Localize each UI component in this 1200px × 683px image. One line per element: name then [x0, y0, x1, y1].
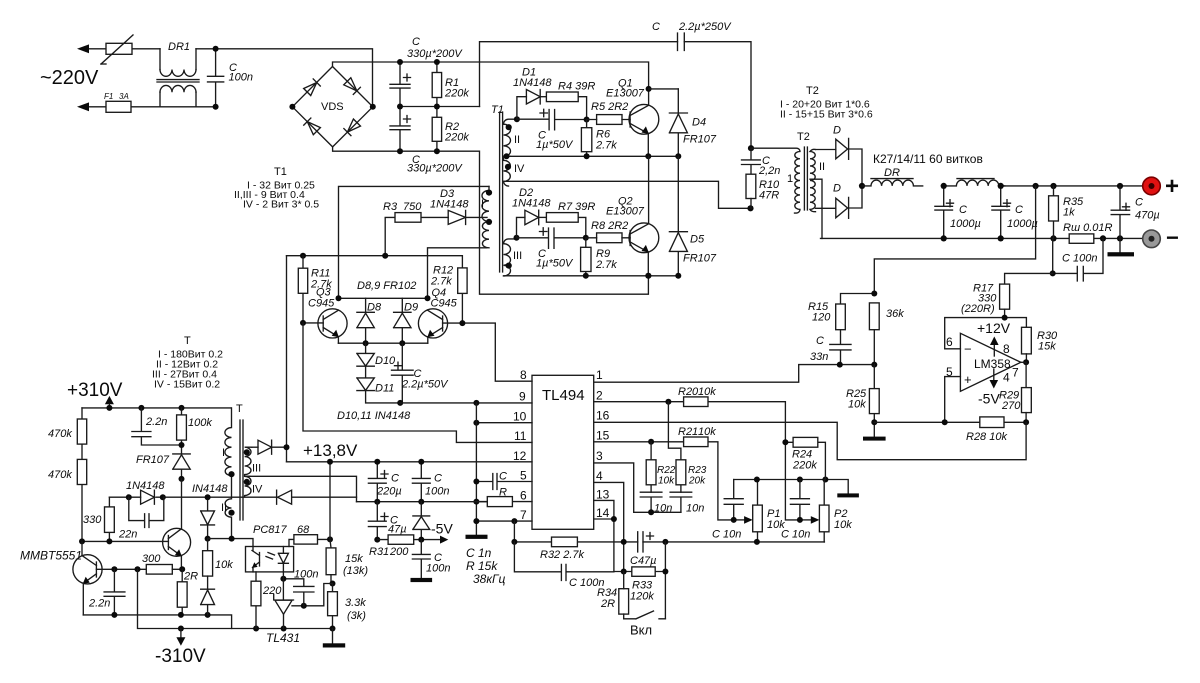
capacitor C 1u*50V (Q2): [517, 228, 586, 270]
wire feedback return to pin16: [594, 422, 1026, 459]
svg-text:PC817: PC817: [253, 524, 288, 536]
svg-text:II - 15+15 Вит 3*0.6: II - 15+15 Вит 3*0.6: [780, 109, 873, 121]
svg-text:300: 300: [142, 553, 161, 565]
inductor DR output choke: [862, 167, 923, 186]
transformer T2 table: [780, 85, 873, 121]
svg-text:D: D: [833, 125, 841, 137]
wire choke top to bridge: [196, 49, 373, 107]
svg-text:C: C: [1015, 204, 1023, 216]
switch Vkl: [624, 611, 666, 638]
capacitor C 100n aux: [412, 462, 449, 502]
svg-text:+: +: [1165, 173, 1179, 200]
transformer T2 secondary winding II: [810, 149, 825, 211]
resistor 36k: [869, 303, 904, 365]
transistor MMBT5551: [20, 541, 146, 615]
capacitor C 100n input: [208, 49, 253, 107]
transformer T2 core: [787, 131, 810, 210]
svg-text:R21: R21: [678, 426, 698, 438]
diode FR107 aux: [136, 454, 190, 479]
wire Q1 emitter rail: [510, 155, 678, 157]
svg-text:47R: 47R: [759, 190, 779, 202]
svg-text:C: C: [499, 471, 507, 483]
capacitor C 47u: [368, 502, 406, 540]
svg-text:1000µ: 1000µ: [950, 218, 981, 230]
resistor R24 220k: [785, 437, 825, 479]
svg-text:C: C: [412, 36, 420, 48]
svg-text:E13007: E13007: [606, 206, 645, 218]
node D2 anode junction: [514, 235, 520, 241]
transformer T1 winding I (left): [481, 186, 492, 247]
svg-text:3: 3: [596, 449, 603, 463]
wire AC top lead: [86, 48, 160, 50]
svg-text:4: 4: [1003, 371, 1010, 385]
wire minus output rail: [821, 237, 1143, 239]
wire T1 left bottom to Q4 collector column: [428, 248, 488, 298]
resistor R33 120k: [614, 542, 666, 619]
resistor 220: [251, 572, 282, 629]
diode D10 IN4148: [357, 343, 396, 367]
transformer T aux core: [236, 403, 243, 520]
svg-text:220µ: 220µ: [376, 486, 402, 498]
svg-text:D10: D10: [375, 355, 396, 367]
svg-text:16: 16: [596, 409, 610, 423]
svg-text:D5: D5: [690, 234, 705, 246]
resistor R9 2.7k: [581, 238, 618, 276]
pin labels right: [596, 368, 610, 520]
svg-text:-310V: -310V: [155, 646, 206, 667]
capacitor 22n: [118, 497, 164, 540]
svg-text:R3: R3: [383, 201, 398, 213]
capacitor C 1u*50V (Q1): [517, 109, 587, 151]
svg-text:750: 750: [403, 201, 422, 213]
wire pin8 to Q4 base line: [462, 323, 532, 381]
transformer T2 primary winding: [751, 148, 800, 213]
capacitor C 2.2u*250V: [652, 21, 732, 51]
transistor Q2 E13007: [606, 156, 659, 275]
resistor 300: [142, 553, 182, 574]
capacitor C 100n -5V: [412, 540, 450, 578]
transformer T aux winding IV: [244, 476, 263, 497]
fuse F1 3A: [104, 92, 131, 112]
svg-text:10k: 10k: [834, 519, 852, 531]
svg-text:LM358: LM358: [974, 357, 1011, 371]
svg-text:5: 5: [520, 469, 527, 483]
svg-text:470k: 470k: [48, 469, 72, 481]
svg-text:C: C: [816, 335, 824, 347]
svg-text:К27/14/11 60 витков: К27/14/11 60 витков: [873, 152, 983, 166]
resistor 2R: [177, 569, 198, 615]
svg-text:C: C: [434, 473, 442, 485]
svg-text:1µ*50V: 1µ*50V: [536, 258, 574, 270]
svg-text:10k: 10k: [698, 426, 716, 438]
op-amp LM358: [946, 320, 1021, 407]
svg-text:100k: 100k: [188, 417, 212, 429]
svg-text:1N4148: 1N4148: [126, 480, 165, 492]
svg-text:R 15k: R 15k: [466, 559, 498, 573]
wire pin1 feedback line: [594, 365, 875, 383]
svg-text:14: 14: [596, 506, 610, 520]
wire pin9 line: [400, 402, 532, 404]
svg-text:R32 2.7k: R32 2.7k: [540, 549, 585, 561]
diode D1 1N4148: [513, 67, 552, 120]
wire P divider top line: [734, 480, 849, 494]
node dots around C330 stack: [397, 59, 403, 65]
wire FR107 to start transistor: [181, 479, 183, 529]
optocoupler PC817: [246, 524, 294, 572]
wire lower rail A: [83, 615, 231, 629]
svg-text:270: 270: [1001, 400, 1021, 412]
svg-text:I: I: [222, 447, 225, 459]
wire emitter common line: [338, 342, 427, 344]
wire AC bottom lead: [86, 106, 216, 108]
svg-text:F1: F1: [104, 92, 113, 101]
svg-text:1µ*50V: 1µ*50V: [536, 139, 574, 151]
bridge node dots: [289, 104, 295, 110]
potentiometer P1 10k: [734, 480, 786, 542]
IC TL494 body: [532, 375, 594, 529]
svg-text:10k: 10k: [848, 399, 866, 411]
node -310V arrow: [155, 629, 206, 668]
wire pin7 ground stub: [476, 520, 532, 522]
resistor 470k lower: [48, 459, 87, 541]
svg-text:330µ*200V: 330µ*200V: [407, 48, 463, 60]
svg-text:+: +: [964, 372, 972, 387]
wire top rail 2.2u riser from midnode: [480, 42, 752, 149]
svg-text:2.2µ*50V: 2.2µ*50V: [401, 379, 449, 391]
svg-text:+13,8V: +13,8V: [303, 441, 358, 460]
wire D3 tap: [466, 216, 487, 218]
wire aux 0V rail: [357, 501, 488, 503]
svg-text:III: III: [513, 250, 522, 262]
svg-text:(220R): (220R): [961, 303, 995, 315]
node op-amp output: [1023, 359, 1029, 365]
wire +rail to Q1 collector riser: [333, 62, 649, 105]
wire inverting input line: [945, 318, 1027, 349]
resistor 15k (13k): [326, 548, 368, 584]
inductor DR1 common-mode choke: [157, 41, 199, 107]
resistor R4 39R: [546, 81, 595, 120]
terminal plus (red): [1143, 173, 1179, 200]
capacitor C 1000u second: [992, 186, 1038, 239]
svg-text:1: 1: [787, 173, 793, 185]
diode IN4148 opto column: [201, 497, 215, 538]
svg-text:C 100n: C 100n: [1062, 253, 1097, 265]
resistor R22 10k: [646, 442, 676, 492]
svg-text:2.2n: 2.2n: [145, 416, 167, 428]
svg-text:1N4148: 1N4148: [430, 199, 469, 211]
resistor R10 47R: [746, 174, 780, 208]
svg-text:C: C: [959, 204, 967, 216]
transformer T1 winding III: [504, 239, 523, 276]
svg-text:4: 4: [596, 469, 603, 483]
svg-text:7: 7: [1012, 366, 1019, 380]
diode -5V clamp: [413, 502, 430, 540]
ground bar TL431: [323, 629, 345, 648]
resistor R29 270: [999, 362, 1031, 422]
svg-text:D8,9 FR102: D8,9 FR102: [357, 280, 416, 292]
resistor 470k upper: [48, 408, 87, 460]
svg-text:1N4148: 1N4148: [512, 198, 551, 210]
svg-text:II: II: [819, 161, 825, 173]
svg-text:-5V: -5V: [431, 521, 453, 537]
capacitor 2.2n aux: [132, 408, 182, 445]
svg-text:220k: 220k: [444, 88, 469, 100]
resistor R28 10k: [874, 417, 1026, 443]
svg-text:R22: R22: [657, 465, 676, 476]
wire T2 center tap to ground rail: [810, 179, 822, 238]
svg-text:3A: 3A: [119, 92, 129, 101]
wire Q1 collector to D4: [649, 88, 679, 90]
ground bar -5V: [411, 578, 433, 582]
wire pin15 line: [594, 442, 734, 520]
resistor R31 200: [369, 535, 440, 558]
svg-text:-5V: -5V: [978, 391, 1000, 407]
svg-text:IV: IV: [514, 163, 525, 175]
svg-text:3.3k: 3.3k: [345, 597, 366, 609]
svg-text:2.7k: 2.7k: [595, 140, 617, 152]
svg-text:FR107: FR107: [136, 454, 170, 466]
resistor R34 2R: [597, 572, 629, 619]
svg-text:DR: DR: [884, 167, 900, 179]
svg-text:1: 1: [596, 368, 603, 382]
svg-text:D: D: [833, 183, 841, 195]
svg-text:+12V: +12V: [977, 320, 1011, 336]
svg-text:10k: 10k: [658, 476, 675, 487]
resistor R32 2.7k: [540, 537, 585, 561]
svg-text:C 1n: C 1n: [466, 546, 492, 560]
resistor R5 2R2: [587, 101, 631, 124]
svg-text:R4 39R: R4 39R: [558, 81, 595, 93]
svg-text:C945: C945: [431, 298, 458, 310]
svg-text:22n: 22n: [118, 529, 137, 541]
capacitor 10n (R23): [670, 492, 704, 514]
resistor R6 2.7k: [581, 120, 617, 157]
svg-text:R: R: [499, 487, 507, 499]
shunt regulator TL431: [266, 572, 300, 645]
node junction dots AC: [213, 46, 219, 52]
diode D bottom secondary: [816, 183, 863, 219]
svg-text:R23: R23: [688, 465, 707, 476]
ground bar TL494: [466, 535, 488, 539]
diode D8 FR102: [357, 298, 382, 343]
wire bottom center rail: [514, 521, 824, 542]
capacitor C 2.2u*50V: [392, 343, 450, 403]
resistor 3.3k (3k): [328, 584, 367, 629]
wire AC top arrow: [77, 44, 89, 53]
resistor R17 330 (220R): [961, 283, 1010, 318]
svg-text:11: 11: [514, 429, 527, 443]
resistor R7 39R: [546, 201, 595, 238]
ground bar P network: [837, 493, 859, 497]
svg-text:8: 8: [1003, 342, 1010, 356]
node D1 anode junction: [514, 116, 520, 122]
capacitor C 470u: [1111, 186, 1160, 238]
svg-text:1000µ: 1000µ: [1007, 218, 1038, 230]
svg-text:C47µ: C47µ: [630, 555, 657, 567]
svg-text:D11: D11: [375, 383, 394, 395]
bridge rectifier VDS: [292, 67, 372, 147]
potentiometer P2 10k: [800, 480, 852, 542]
svg-text:38кГц: 38кГц: [473, 572, 506, 586]
svg-text:2.7k: 2.7k: [430, 276, 452, 288]
svg-text:6: 6: [520, 489, 527, 503]
svg-text:T: T: [184, 335, 191, 347]
svg-text:R20: R20: [678, 386, 699, 398]
resistor R25 10k: [846, 365, 879, 423]
svg-text:2,2n: 2,2n: [758, 165, 780, 177]
transformer T aux table: [152, 335, 223, 391]
svg-text:D8: D8: [367, 302, 382, 314]
svg-text:T: T: [236, 403, 243, 415]
svg-text:FR107: FR107: [683, 253, 717, 265]
wire Q2 emitter rail: [510, 275, 678, 277]
svg-text:IN4148: IN4148: [192, 483, 228, 495]
node T2 primary top dot: [748, 145, 754, 151]
svg-text:15k: 15k: [1038, 341, 1056, 353]
node +310V arrow: [105, 396, 114, 404]
svg-text:C: C: [652, 21, 660, 33]
transistor start NPN: [163, 528, 191, 569]
svg-text:220: 220: [262, 585, 282, 597]
svg-text:470µ: 470µ: [1135, 210, 1160, 222]
svg-text:R5 2R2: R5 2R2: [591, 101, 628, 113]
svg-text:2R: 2R: [183, 571, 198, 583]
svg-text:2.2n: 2.2n: [88, 598, 110, 610]
terminal minus (gray): [1143, 225, 1179, 250]
diode D4 FR107: [669, 89, 716, 156]
transformer T1 labels table: [234, 166, 319, 211]
diode D3 1N4148: [430, 188, 469, 224]
capacitor C 220u: [368, 462, 401, 502]
wire plus sense column: [874, 186, 1035, 294]
svg-text:1k: 1k: [1063, 207, 1075, 219]
wire T1 winding I top feed: [339, 186, 490, 298]
resistor 68: [289, 524, 330, 547]
wire pin12 +13.8V rail: [287, 461, 533, 463]
resistor 10k opto: [203, 539, 234, 590]
wire winding IV feedback to T2 loop: [504, 181, 751, 208]
svg-text:C 10n: C 10n: [712, 529, 741, 541]
resistor R21 10k: [678, 426, 716, 447]
wire aux -5V winding line: [109, 496, 356, 498]
wire pin2 line: [594, 402, 800, 520]
wire pin3 jog: [594, 463, 681, 512]
svg-text:TL431: TL431: [266, 631, 300, 645]
svg-text:200: 200: [389, 546, 409, 558]
svg-text:R8 2R2: R8 2R2: [591, 220, 628, 232]
diode D5 FR107: [669, 156, 716, 275]
svg-text:10n: 10n: [686, 503, 704, 515]
svg-text:R31: R31: [369, 546, 389, 558]
resistor Rsh 0.01R shunt: [1063, 222, 1113, 243]
svg-text:10k: 10k: [698, 386, 716, 398]
diode D top secondary: [816, 125, 863, 186]
wire ground bus TL494: [475, 403, 477, 535]
resistor R35 1k: [1049, 186, 1084, 238]
svg-text:47µ: 47µ: [388, 524, 407, 536]
svg-text:III: III: [252, 463, 261, 475]
svg-text:(13k): (13k): [343, 565, 368, 577]
resistor R30 15k: [1022, 327, 1059, 362]
resistor R1 220k: [432, 62, 469, 107]
svg-text:100n: 100n: [294, 569, 318, 581]
svg-text:15k: 15k: [345, 553, 363, 565]
transistor Q3 C945: [303, 287, 347, 344]
diode D9 FR102: [394, 298, 418, 343]
svg-text:100n: 100n: [426, 563, 450, 575]
transistor Q1 E13007: [606, 78, 659, 157]
svg-text:FR107: FR107: [683, 134, 717, 146]
resistor R15 120: [808, 294, 874, 330]
svg-text:470k: 470k: [48, 428, 72, 440]
wire noninverting input: [945, 377, 961, 423]
wire start transistor base line: [82, 540, 168, 542]
svg-text:2: 2: [596, 389, 603, 403]
transformer T1 core: [491, 104, 504, 272]
svg-text:R7 39R: R7 39R: [558, 201, 595, 213]
capacitor C 10n (P1): [712, 480, 743, 541]
svg-text:C945: C945: [308, 298, 335, 310]
svg-text:Вкл: Вкл: [630, 623, 652, 638]
svg-text:220k: 220k: [792, 460, 817, 472]
svg-text:36k: 36k: [886, 308, 904, 320]
wire pin11 from Q3 base: [303, 323, 532, 443]
svg-text:II: II: [221, 502, 227, 514]
svg-text:2.2µ*250V: 2.2µ*250V: [678, 21, 732, 33]
wire pin10 stub: [476, 422, 532, 424]
svg-text:D4: D4: [692, 117, 706, 129]
svg-text:330: 330: [83, 514, 102, 526]
svg-text:20k: 20k: [688, 476, 706, 487]
svg-text:IV: IV: [252, 484, 263, 496]
svg-text:C: C: [1135, 197, 1143, 209]
resistor R2 220k: [432, 107, 469, 152]
svg-text:~220V: ~220V: [40, 67, 99, 89]
wire TL431 ref branch: [292, 584, 333, 606]
svg-text:T2: T2: [806, 85, 819, 97]
wire lower rail B: [138, 569, 333, 628]
wire +13.8 feed column: [286, 256, 288, 462]
svg-text:Rш 0.01R: Rш 0.01R: [1063, 222, 1113, 234]
node Q1 collector dot: [646, 86, 652, 92]
wire Q3/Q4 collector top link: [339, 297, 428, 299]
transformer T aux winding III: [244, 447, 261, 476]
capacitor 100n TL431: [283, 569, 318, 606]
resistor R23 20k: [668, 402, 706, 493]
text C 1n R 15k 38kGc: [466, 546, 506, 586]
svg-text:−: −: [1166, 225, 1179, 250]
ground bar at R25: [863, 422, 886, 440]
svg-text:−: −: [964, 342, 972, 357]
svg-text:220k: 220k: [444, 132, 469, 144]
wire midnode line: [400, 106, 480, 108]
svg-text:D9: D9: [404, 302, 418, 314]
svg-text:T1: T1: [491, 104, 504, 116]
resistor R8 2R2: [586, 220, 630, 243]
svg-text:I: I: [481, 198, 484, 210]
capacitor C 33n: [810, 330, 851, 365]
diode aux rectifier +13.8: [252, 440, 287, 454]
svg-text:120k: 120k: [630, 591, 654, 603]
capacitor C 1000u first: [935, 186, 981, 239]
svg-text:IV - 2 Вит 3* 0.5: IV - 2 Вит 3* 0.5: [243, 199, 319, 211]
svg-text:13: 13: [596, 488, 610, 502]
svg-text:100n: 100n: [425, 486, 449, 498]
resistor R11 2.7k: [298, 256, 332, 323]
resistor R20 10k: [678, 386, 716, 407]
svg-text:R28 10k: R28 10k: [966, 431, 1007, 443]
svg-text:68: 68: [297, 524, 310, 536]
